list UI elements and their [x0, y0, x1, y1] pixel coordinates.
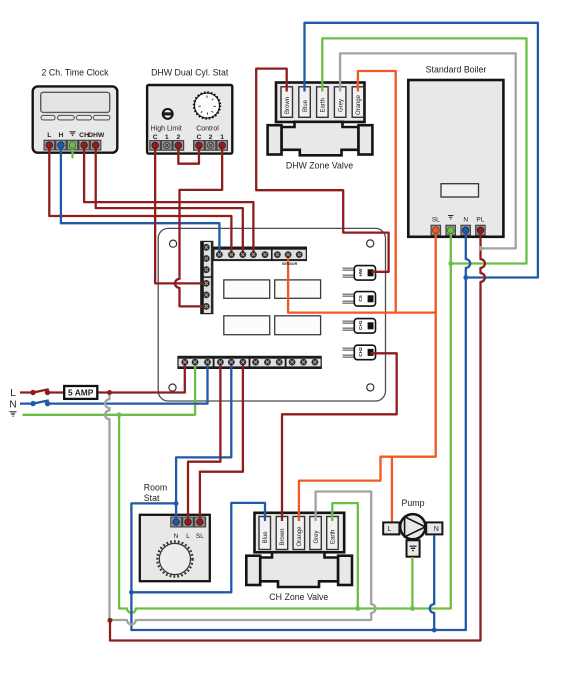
junction dot CH valve earth on rail [355, 606, 360, 611]
junction dot supply earth branch [117, 412, 122, 417]
svg-text:SL: SL [432, 217, 440, 224]
svg-text:SL: SL [196, 533, 204, 540]
CH valve slot Brown [276, 517, 288, 550]
time clock button 2 [58, 115, 75, 120]
svg-text:CH Zone Valve: CH Zone Valve [269, 592, 328, 602]
top terminal strip [214, 247, 307, 260]
junction dot grey on boiler PL [479, 246, 484, 251]
svg-text:Standard Boiler: Standard Boiler [426, 65, 487, 75]
junction dot pump N on rail [432, 628, 437, 633]
svg-text:5 AMP: 5 AMP [68, 388, 94, 398]
svg-text:Control: Control [196, 126, 219, 133]
wiring centre corner screw top-right [367, 240, 374, 247]
svg-text:High Limit: High Limit [151, 126, 182, 133]
boiler display [441, 184, 479, 197]
stat terminal Ctrl 1 [219, 142, 226, 149]
DHW dual cyl stat body [147, 85, 232, 154]
CH valve slot Blue [259, 517, 271, 550]
wire supply earth to bottom strip screw [23, 362, 196, 415]
svg-text:Brown: Brown [285, 97, 291, 114]
stat terminal HL 1 [163, 142, 170, 149]
top strip screw 2 [228, 251, 235, 258]
relay 3 [224, 316, 270, 335]
svg-text:H: H [58, 132, 63, 139]
top strip screw 1 [216, 251, 223, 258]
isolator dots supply N [30, 401, 35, 406]
time clock terminal L [46, 142, 53, 149]
svg-text:CH1: CH1 [358, 320, 364, 330]
boiler terminal SL square [431, 225, 442, 236]
svg-text:L: L [387, 526, 391, 533]
CH valve slot Earth [327, 517, 339, 550]
svg-text:Blue: Blue [303, 99, 309, 112]
wiring centre corner screw bottom-left [169, 384, 176, 391]
wiring centre box [158, 228, 385, 401]
stat terminal Ctrl 2 [207, 142, 214, 149]
top strip screw 3 [239, 251, 246, 258]
svg-text:Blue: Blue [263, 531, 269, 544]
wire time clock DHW to top strip screw 3 [96, 145, 243, 255]
stat terminal HL 2 [175, 142, 182, 149]
svg-text:HW: HW [358, 268, 364, 276]
symbol supply earth [10, 412, 17, 416]
room stat terminal L [185, 519, 192, 526]
connector CH2 [343, 345, 376, 360]
svg-text:Room: Room [144, 483, 167, 493]
DHW valve slot Blue [299, 87, 311, 118]
time clock terminal earth [69, 142, 76, 149]
left terminal strip [201, 241, 213, 313]
bottom strip screws section 3 [252, 359, 259, 366]
left strip screw 2 [203, 255, 210, 262]
wire connector CH2 to CH valve Brown [282, 353, 397, 521]
pump earth symbol [410, 546, 417, 550]
svg-text:DHW Dual Cyl. Stat: DHW Dual Cyl. Stat [151, 68, 229, 78]
left strip screw 6 [203, 303, 210, 310]
wire time clock L to top strip screw 2 [49, 145, 231, 255]
stat terminal HL C [152, 142, 159, 149]
left strip screw 4 [203, 280, 210, 287]
left strip screw 5 [203, 292, 210, 299]
svg-text:Pump: Pump [402, 498, 425, 508]
wire time clock CH to top strip screw 4 [84, 145, 253, 255]
time clock display [41, 92, 110, 112]
wire DHW valve Earth loop to boiler earth junction [322, 38, 526, 263]
wire boiler PL down to bottom PL rail (hops earth and neutral) [110, 234, 485, 641]
svg-text:DHW: DHW [88, 132, 105, 139]
wire neutral link to CH valve Blue [131, 503, 265, 592]
stat terminal block high-limit [149, 140, 184, 151]
standard boiler body [408, 80, 503, 237]
DHW zone valve terminal box [276, 83, 365, 123]
wire DHW valve Grey loop to boiler PL junction [340, 53, 516, 248]
svg-text:Brown: Brown [280, 528, 286, 545]
pump earth box [407, 540, 420, 556]
pump N box [426, 522, 442, 534]
left strip screw 1 [203, 244, 210, 251]
svg-text:1: 1 [220, 134, 224, 141]
boiler terminal PL square [475, 225, 486, 236]
time clock button 1 [41, 115, 55, 120]
wire pump N to neutral rail (hops earth rail) [430, 535, 434, 630]
wire supply L with isolator through fuse to bottom strip screw [20, 362, 185, 392]
junction dot neutral link [129, 590, 134, 595]
svg-text:2: 2 [209, 134, 213, 141]
svg-text:Orange: Orange [356, 94, 362, 115]
sensor strip screw 1 [274, 251, 281, 258]
bottom strip screws section 2 [217, 359, 224, 366]
room stat terminal SL [197, 519, 204, 526]
svg-text:C: C [196, 134, 201, 141]
DHW valve slot Orange [352, 87, 364, 118]
wire boiler SL down to CH valve Orange (tees to pump L) [299, 234, 436, 521]
svg-text:N: N [434, 526, 439, 533]
bottom strip screws section 4 [289, 359, 296, 366]
fuse 5 AMP box [64, 386, 97, 399]
wiring centre corner screw bottom-right [367, 384, 374, 391]
wire boiler earth down to bottom earth rail and supply earth branch [119, 234, 451, 613]
stat terminal block control [193, 140, 228, 151]
svg-text:L: L [47, 132, 51, 139]
wire stat high-limit C to left strip lower screw 1 [155, 145, 204, 283]
wire bottom strip to room stat SL [200, 362, 243, 518]
room stat body [140, 515, 210, 581]
boiler terminal N [462, 227, 469, 234]
room stat terminal N [173, 519, 180, 526]
time clock terminal H [58, 142, 65, 149]
boiler terminal earth [447, 227, 454, 234]
DHW valve slot Earth [317, 87, 329, 118]
wire stat link HL2 to control C [178, 145, 199, 164]
svg-text:Earth: Earth [331, 530, 337, 544]
top strip screw 4 [250, 251, 257, 258]
svg-text:Grey: Grey [314, 530, 320, 543]
svg-text:C: C [153, 134, 158, 141]
svg-text:CS: CS [358, 294, 364, 301]
boiler terminal N square [460, 225, 471, 236]
stat high-limit screw [163, 109, 173, 119]
DHW valve slot Grey [334, 87, 346, 118]
svg-text:N: N [463, 217, 468, 224]
CH valve slot Orange [293, 517, 305, 550]
top strip screw 5 [262, 251, 269, 258]
wire pump earth to earth rail [411, 557, 413, 609]
svg-text:SENSOR: SENSOR [282, 262, 298, 266]
sensor strip screw 3 [296, 251, 303, 258]
svg-text:L: L [186, 533, 190, 540]
sensor strip screw 2 [285, 251, 292, 258]
junction dot boiler N branch [463, 275, 468, 280]
DHW valve left cap [268, 125, 282, 154]
DHW valve slot Brown [281, 87, 293, 118]
svg-text:1: 1 [165, 134, 169, 141]
stat control dial [194, 93, 220, 119]
wiring centre corner screw top-left [170, 240, 177, 247]
relay 1 [224, 280, 270, 298]
wire orange tee to pump L [391, 457, 393, 522]
bottom terminal strip [178, 356, 321, 368]
pump L box [383, 522, 399, 534]
svg-text:PL: PL [476, 217, 484, 224]
relay 4 [275, 316, 321, 335]
wire CH valve Earth to earth rail [332, 503, 358, 608]
svg-text:Grey: Grey [338, 99, 344, 112]
wire time clock earth stub [71, 145, 73, 158]
junction dot room stat N branch [174, 501, 179, 506]
svg-text:2: 2 [176, 134, 180, 141]
connector CS [343, 292, 376, 307]
svg-text:CH2: CH2 [358, 347, 364, 357]
wire DHW valve Blue loop to boiler N junction [305, 23, 538, 278]
left strip screw 3 [203, 266, 210, 273]
time clock body [33, 86, 118, 152]
room stat dial [157, 541, 192, 576]
junction dot live-grey tee at fuse [107, 390, 112, 395]
CH valve left cap [246, 556, 260, 585]
boiler terminal PL [477, 227, 484, 234]
time clock terminal CH [81, 142, 88, 149]
svg-text:Earth: Earth [321, 98, 327, 112]
bottom strip screws section 1 [181, 359, 188, 366]
time clock terminal block [44, 140, 102, 151]
junction dot grey/PL at bottom left [108, 618, 113, 623]
boiler terminal earth square [445, 225, 456, 236]
CH zone valve terminal box [255, 513, 345, 553]
wire bottom strip to room stat L [188, 362, 220, 518]
svg-text:N: N [174, 533, 179, 540]
wire bottom strip to room stat N [176, 362, 231, 518]
relay 2 [275, 280, 321, 298]
time clock terminal DHW [92, 142, 99, 149]
time clock button 4 [93, 115, 110, 120]
svg-text:N: N [9, 399, 16, 410]
pump impeller triangle [405, 517, 426, 537]
wire boiler N down to bottom neutral rail and room stat N junction (hops earth rail) [131, 234, 470, 630]
wire time clock H to top strip screw 1 [61, 145, 220, 255]
wire DHW valve Orange to sensor rail [358, 71, 396, 313]
isolator dots supply L [30, 390, 35, 395]
wire stat control 1 to left strip lower screw 3 (hops over HL-C wire) [175, 145, 222, 306]
wire DHW valve Brown to connector HW [256, 69, 388, 272]
connector HW [343, 266, 376, 281]
CH valve motor body [260, 552, 338, 587]
svg-text:Stat: Stat [144, 493, 160, 503]
junction dot boiler earth branch [448, 261, 453, 266]
CH valve slot Grey [310, 517, 322, 550]
connector CH1 [343, 319, 376, 334]
svg-text:DHW Zone Valve: DHW Zone Valve [286, 161, 353, 171]
wire grey live feed from fuse junction to CH valve Grey (hops N, earth, neutral) [105, 393, 376, 625]
CH valve right cap [338, 556, 352, 585]
pump circle [400, 514, 425, 539]
time clock button 3 [76, 115, 91, 120]
wire supply N with isolator to bottom strip screw [20, 362, 208, 404]
svg-text:Orange: Orange [297, 526, 303, 547]
wire sensor terminal to boiler SL rail [288, 255, 436, 313]
svg-text:2 Ch. Time Clock: 2 Ch. Time Clock [42, 68, 110, 78]
DHW valve right cap [359, 125, 373, 154]
room stat terminal block [170, 517, 206, 528]
DHW valve motor body [282, 122, 359, 156]
svg-text:L: L [10, 388, 16, 399]
junction dot pump earth on rail [410, 606, 415, 611]
stat terminal Ctrl C [196, 142, 203, 149]
boiler terminal SL [433, 227, 440, 234]
